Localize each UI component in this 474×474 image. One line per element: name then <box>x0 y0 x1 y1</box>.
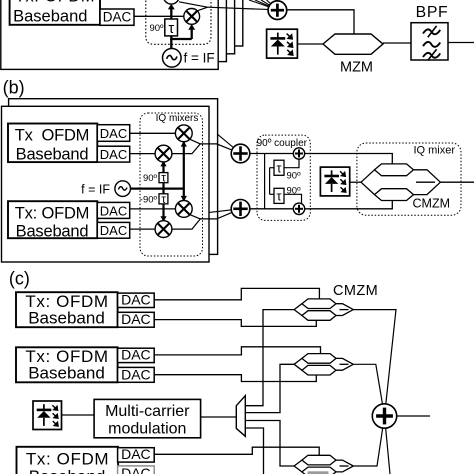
Tx OFDM baseband block (b) channel-Q <box>8 201 97 240</box>
dashed IQ-modulator box (a), cropped at top <box>146 0 211 44</box>
svg-text:DAC: DAC <box>100 223 127 238</box>
wire DAC row2 lower to CMZM2 (c) <box>154 375 316 382</box>
carrier wire splitter to CMZM2 (c) <box>245 364 294 412</box>
svg-text:BPF: BPF <box>416 4 449 21</box>
DAC row2 upper (c) <box>118 347 155 363</box>
svg-text:DAC: DAC <box>100 203 127 218</box>
multi-carrier modulation block (c) <box>94 399 201 437</box>
grey crop artifact under CMZM3 (c) <box>308 471 329 474</box>
arrowheads of oscillator bus (b) <box>160 141 187 222</box>
wire laser to multi-carrier block (c) <box>62 414 95 416</box>
svg-text:τ: τ <box>168 21 174 37</box>
svg-text:τ: τ <box>277 189 282 203</box>
svg-text:(b): (b) <box>3 78 25 98</box>
wire DAC1 to mixer1 (b) <box>130 132 184 134</box>
svg-text:Baseband: Baseband <box>29 467 106 474</box>
CMZM label (c) <box>333 283 378 299</box>
laser diode block (b) <box>320 167 349 196</box>
svg-text:Tx OFDM: Tx OFDM <box>15 126 89 144</box>
arrowhead into cropped mixer (a) <box>168 4 175 10</box>
output wire of (c) <box>397 415 430 417</box>
wire DAC2 to mixer2 (b) <box>130 153 164 155</box>
svg-text:DAC: DAC <box>121 347 151 363</box>
svg-text:Baseband: Baseband <box>16 222 89 240</box>
svg-text:CMZM: CMZM <box>413 196 451 210</box>
IQ mixer dashed box (b) <box>357 143 461 215</box>
IQ mixers dashed box (b) <box>140 113 203 256</box>
svg-text:(c): (c) <box>9 269 30 289</box>
svg-text:Baseband: Baseband <box>28 364 105 383</box>
merged output wires to adder (a) <box>179 2 278 11</box>
wires from stacked channel pages to adder (a) <box>249 0 277 10</box>
90-degree coupler dashed box (b) <box>257 135 311 220</box>
oscillator f=IF (a) <box>163 49 215 68</box>
big adder (c) <box>372 404 396 428</box>
coupler adder top (b) <box>293 148 304 159</box>
top I rail into coupler and CMZM RF feed (b) <box>250 154 392 164</box>
Tx OFDM baseband block (c) row 3, cropped <box>17 447 119 474</box>
output wire of (b) <box>440 181 474 183</box>
carrier wire splitter to CMZM1 (c) <box>245 310 294 406</box>
svg-text:Tx: OFDM: Tx: OFDM <box>15 205 89 223</box>
mixer (cropped, top) of (a) <box>163 0 179 4</box>
Tx OFDM baseband block (a), cropped at top <box>10 0 100 25</box>
DAC 3 (b) <box>97 202 129 218</box>
wire laser to CMZM (b) <box>350 181 361 183</box>
oscillator feed bus (b) <box>131 142 184 220</box>
mixer 3 (b) <box>175 201 192 218</box>
wire DAC4 to mixer4 (b) <box>130 228 164 230</box>
wire multi-carrier block to splitter (c) <box>201 416 237 418</box>
svg-text:IQ mixer: IQ mixer <box>413 145 455 157</box>
arrowhead into mixer M2 (a) <box>188 24 195 30</box>
svg-text:IQ mixers: IQ mixers <box>156 113 199 124</box>
wire DAC row1 upper to CMZM1 (c) <box>154 288 319 299</box>
wire laser to MZM (a) <box>297 43 323 45</box>
adder 1 (b) <box>231 144 250 163</box>
svg-text:DAC: DAC <box>100 126 127 141</box>
svg-text:DAC: DAC <box>121 311 151 327</box>
svg-text:90º: 90º <box>287 186 302 197</box>
DAC row1 upper (c) <box>118 292 155 308</box>
svg-text:DAC: DAC <box>103 10 132 25</box>
mixer 1 (b) <box>175 125 192 142</box>
svg-text:90º: 90º <box>143 173 158 184</box>
oscillator bold feed lines (a) <box>170 8 192 49</box>
coupler internal cross lines (b) <box>265 154 302 209</box>
svg-text:Baseband: Baseband <box>13 7 87 25</box>
mixer M2 (a) <box>184 9 200 25</box>
page sheet 3 of (a) <box>17 0 234 54</box>
DAC 4 (b) <box>97 222 129 238</box>
merge wires bottom pair to adder2 (b) <box>172 209 241 229</box>
svg-text:90º: 90º <box>287 171 302 182</box>
oscillator f=IF (b) <box>81 181 130 197</box>
svg-text:modulation: modulation <box>108 421 186 438</box>
tau +90 box (b) <box>143 173 168 185</box>
DAC row3 upper (c) <box>118 446 155 462</box>
wire DAC row1 lower to CMZM1 (c) <box>154 320 316 327</box>
svg-text:CMZM: CMZM <box>333 283 378 299</box>
label (b) <box>3 78 25 98</box>
wire adder to MZM RF port (a) <box>286 10 354 34</box>
wire DAC to mixer (a) <box>134 15 184 17</box>
svg-text:Baseband: Baseband <box>28 309 105 328</box>
splitter fan (c) <box>236 396 245 437</box>
svg-text:DAC: DAC <box>100 147 127 162</box>
BPF filter block (a) <box>411 4 448 60</box>
svg-text:τ: τ <box>277 161 282 175</box>
svg-text:DAC: DAC <box>121 446 151 462</box>
svg-text:τ: τ <box>161 194 166 206</box>
svg-text:f = IF: f = IF <box>81 182 110 196</box>
bottom Q rail into coupler and CMZM RF feed (b) <box>250 201 392 209</box>
DAC row2 lower (c) <box>118 366 155 382</box>
page sheet 1 (front) of (a) <box>1 0 218 69</box>
svg-text:Multi-carrier: Multi-carrier <box>105 403 190 420</box>
svg-text:MZM: MZM <box>340 60 373 76</box>
adder (a) <box>268 1 287 20</box>
CMZM modulator (b) <box>361 164 440 201</box>
tau delay box (a) <box>165 19 178 37</box>
DAC block (a) <box>100 9 134 25</box>
90-degree label (a) <box>149 23 164 34</box>
page sheet 2 of (a) <box>9 0 226 62</box>
svg-text:90º: 90º <box>149 23 164 34</box>
laser diode block (c) <box>33 401 62 430</box>
mixer 2 (b) <box>155 145 172 162</box>
wire CMZM2 to adder (c) <box>353 364 384 416</box>
svg-text:τ: τ <box>161 173 166 185</box>
mixer 4 (b) <box>155 221 172 238</box>
laser diode block (a) <box>267 29 298 58</box>
CMZM modulator 1 (c) <box>294 299 353 320</box>
CMZM modulator 2 (c) <box>294 354 353 375</box>
Tx OFDM baseband block (c) row 2 <box>16 347 118 383</box>
MZM modulator (a) <box>323 34 383 76</box>
wire from back page to adder1 (b) <box>218 134 241 153</box>
Tx OFDM baseband block (b) channel-I <box>8 124 97 164</box>
svg-text:Tx: OFDM: Tx: OFDM <box>15 0 95 6</box>
label (c) <box>9 269 30 289</box>
svg-text:DAC: DAC <box>121 292 151 308</box>
CMZM modulator 3 (c), cropped at bottom <box>294 455 353 474</box>
DAC row1 lower (c) <box>118 311 155 327</box>
CMZM label (b) <box>413 196 451 210</box>
DAC row3 lower grey cropped (c) <box>118 465 155 474</box>
adder 2 (b) <box>231 200 250 219</box>
svg-text:-90º: -90º <box>140 194 158 205</box>
svg-text:DAC: DAC <box>121 366 151 382</box>
output wire of (a) <box>448 42 474 44</box>
tau -90 box (b) <box>140 194 168 206</box>
svg-text:f = IF: f = IF <box>184 50 215 65</box>
summing wires into big adder (c) <box>353 310 396 416</box>
coupler tau box upper (b) <box>274 160 301 181</box>
wire from back page to adder2 (b) <box>209 209 240 213</box>
wire MZM to BPF (a) <box>383 42 411 44</box>
wire DAC row3 upper to CMZM3 (c) <box>154 447 319 455</box>
DAC 1 (b) <box>97 125 129 142</box>
page sheet 4 (backmost) of (a) <box>25 0 242 46</box>
svg-text:Baseband: Baseband <box>16 146 89 164</box>
DAC 2 (b) <box>97 146 129 162</box>
svg-text:DAC: DAC <box>121 465 151 474</box>
wire CMZM3 to adder (c) <box>353 416 384 466</box>
merge wires top pair to adder1 (b) <box>172 139 241 153</box>
svg-text:Tx: OFDM: Tx: OFDM <box>26 450 109 469</box>
carrier wire splitter to off-page channel (c) <box>245 428 263 474</box>
page sheet 2 (back) of (b) <box>9 99 218 255</box>
coupler adder bottom (b) <box>293 203 304 214</box>
page sheet 1 (front) of (b) <box>2 106 210 262</box>
coupler tau box lower (b) <box>274 186 301 204</box>
wire DAC row2 upper to CMZM2 (c) <box>154 347 320 355</box>
wire DAC3 to mixer3 (b) <box>130 208 184 210</box>
wire off-page channel to adder (c) <box>385 416 391 474</box>
Tx OFDM baseband block (c) row 1 <box>16 292 118 328</box>
carrier wire splitter to CMZM3 (c) <box>245 421 294 467</box>
